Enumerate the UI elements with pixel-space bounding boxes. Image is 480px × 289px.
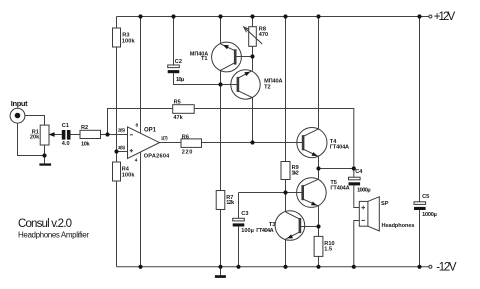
wire C4 to speaker plus	[354, 186, 360, 208]
wire T1 collector to T2 base node	[220, 70, 222, 84]
resistor R2	[80, 130, 101, 138]
resistor R5	[173, 105, 195, 114]
node T5 base	[283, 190, 287, 194]
node noninverting in	[114, 149, 118, 153]
svg-text:OP1: OP1	[144, 127, 157, 133]
wire R8 top	[252, 17, 254, 27]
capacitor C2	[168, 65, 180, 73]
wire R4 bottom to rail	[116, 181, 118, 267]
node bot C5	[417, 265, 421, 269]
svg-text:3(5): 3(5)	[118, 145, 125, 150]
transistor T2	[231, 70, 260, 99]
svg-text:ГТ404А: ГТ404А	[256, 228, 273, 234]
svg-text:OPA2604: OPA2604	[144, 154, 170, 160]
capacitor C3	[233, 218, 245, 226]
ground symbol input	[39, 163, 51, 165]
wire R8 bottom to T2 emitter	[252, 46, 254, 70]
svg-text:-12V: -12V	[436, 261, 457, 273]
wire R9 column from rail	[285, 17, 287, 162]
capacitor C1	[62, 130, 71, 140]
node T5e R10	[316, 224, 320, 228]
node R1 ground	[42, 153, 46, 157]
wire R1 bottom to ground	[44, 145, 46, 163]
svg-text:R6: R6	[182, 135, 189, 141]
svg-text:220: 220	[182, 149, 193, 155]
node output	[250, 140, 254, 144]
op-amp OP1	[128, 127, 160, 158]
wire output node to C4	[319, 168, 354, 170]
wire ground stub below rail	[220, 267, 222, 275]
node inverting in	[105, 132, 109, 136]
svg-text:ГТ404А: ГТ404А	[330, 185, 349, 191]
capacitor C4	[349, 177, 361, 185]
wire T5 base row	[239, 192, 302, 194]
wire T1 emitter to rail	[220, 17, 222, 44]
terminal -12V circle	[429, 265, 432, 268]
svg-text:C1: C1	[62, 123, 69, 129]
wire C3 bottom to rail	[238, 227, 240, 267]
svg-text:1000µ: 1000µ	[422, 212, 437, 218]
wire R5 feedback right run to C4 node	[194, 109, 354, 169]
transistor T5	[297, 178, 327, 208]
node bot R7	[218, 265, 222, 269]
node bot SP	[352, 265, 356, 269]
transistor T3	[275, 211, 305, 241]
svg-text:4.0: 4.0	[62, 141, 70, 147]
resistor R10	[314, 236, 323, 256]
svg-text:2(6): 2(6)	[118, 127, 125, 132]
wire top +12V rail	[117, 16, 430, 18]
wire R9 bottom to T5 base node	[285, 180, 287, 212]
svg-text:470: 470	[259, 32, 268, 38]
wire R10 top	[318, 227, 320, 237]
svg-text:20k: 20k	[30, 135, 40, 141]
resistor R3	[113, 28, 121, 47]
resistor R7	[216, 191, 225, 210]
svg-text:100k: 100k	[122, 172, 136, 178]
resistor R6	[181, 139, 202, 148]
resistor R9	[281, 162, 290, 180]
wire T3 emitter to rail	[285, 239, 287, 267]
transistor T1	[212, 42, 242, 72]
svg-text:1.5: 1.5	[324, 246, 332, 252]
wire R1 wiper link	[54, 134, 62, 136]
svg-text:C2: C2	[175, 59, 182, 65]
node T1 base	[250, 54, 254, 58]
ground symbol bottom	[215, 275, 226, 278]
wire T2 collector down to output node	[252, 98, 254, 143]
node rail R9	[283, 14, 287, 18]
node bot T3e	[283, 265, 287, 269]
resistor R4	[113, 162, 121, 181]
svg-text:10k: 10k	[81, 141, 90, 147]
wire R5 feedback left leg	[108, 109, 173, 135]
svg-text:C3: C3	[241, 211, 248, 217]
wire C1 to R2	[71, 134, 81, 136]
svg-text:100µ: 100µ	[241, 228, 254, 234]
svg-text:T1: T1	[201, 56, 208, 62]
wire op-amp noninverting input	[117, 151, 128, 153]
svg-text:T2: T2	[264, 84, 271, 90]
wire C5 bottom to rail	[419, 210, 421, 267]
wire T3 base lead	[300, 226, 319, 228]
wire C4 node down	[353, 169, 355, 178]
wire jack sleeve to ground	[18, 122, 45, 155]
svg-text:1k2: 1k2	[291, 170, 298, 176]
svg-text:SP: SP	[381, 201, 389, 207]
node bot pin4	[138, 265, 142, 269]
svg-text:Input: Input	[11, 99, 28, 108]
node rail T1e	[218, 14, 222, 18]
node bot C3	[236, 265, 240, 269]
input jack	[10, 108, 25, 123]
svg-text:R2: R2	[81, 125, 88, 131]
resistor R1	[40, 125, 49, 145]
wire C3 top column	[238, 193, 240, 219]
svg-text:10µ: 10µ	[176, 77, 184, 83]
wire op-amp pin4	[140, 152, 142, 267]
wire op-amp output to R6	[160, 142, 182, 144]
wire C2 bottom to T2 base	[174, 73, 238, 84]
wire C2 top column	[173, 17, 175, 66]
svg-text:4: 4	[135, 158, 138, 163]
wire bottom -12V rail	[117, 266, 430, 268]
capacitor C5	[414, 202, 426, 210]
node T2 base	[218, 82, 222, 86]
svg-text:C5: C5	[422, 194, 429, 200]
wire input jack to R1 top	[25, 116, 45, 126]
svg-text:1(7): 1(7)	[161, 135, 168, 140]
svg-text:47k: 47k	[173, 115, 183, 121]
wire R2 to inverting input	[100, 134, 128, 136]
terminal +12V circle	[429, 15, 432, 18]
node rail T4c	[316, 14, 320, 18]
trimmer R8 arrow	[244, 27, 262, 44]
svg-text:+12V: +12V	[434, 11, 456, 23]
wire R6 to T4 base	[201, 142, 303, 144]
wire T2 base node down to R7	[220, 85, 222, 191]
svg-text:ГТ404А: ГТ404А	[330, 145, 349, 151]
node T4e C4	[316, 166, 320, 170]
wire T5 emitter down	[318, 206, 320, 227]
node bot R10	[316, 265, 320, 269]
wire R3 top	[116, 17, 118, 29]
node rail pin8	[138, 14, 142, 18]
wire op-amp pin8	[140, 17, 142, 134]
node rail C5top	[417, 14, 421, 18]
wire R3 bottom to +input node	[116, 47, 118, 162]
svg-text:Headphones Amplifier: Headphones Amplifier	[18, 231, 89, 240]
svg-text:R5: R5	[174, 100, 181, 106]
wire T4 emitter to T5 collector	[318, 157, 320, 180]
node rail R8	[250, 14, 254, 18]
wire T1 base lead	[236, 56, 252, 58]
transistor T4	[297, 128, 327, 158]
svg-text:100k: 100k	[122, 38, 136, 44]
node C4 top	[352, 166, 356, 170]
wire speaker minus to rail	[354, 221, 360, 267]
potentiometer R1 wiper arrow	[49, 132, 55, 137]
svg-text:12k: 12k	[226, 200, 235, 206]
wire R7 bottom to rail	[220, 210, 222, 267]
node rail C2	[171, 14, 175, 18]
svg-text:8: 8	[135, 123, 138, 128]
wire C5 top column	[419, 17, 421, 202]
wire R10 bottom to rail	[318, 256, 320, 266]
svg-text:C4: C4	[355, 169, 363, 175]
speaker SP	[359, 197, 379, 231]
wire T4 collector to rail	[318, 17, 320, 129]
svg-text:Consul v.2.0: Consul v.2.0	[18, 218, 72, 230]
svg-text:1000µ: 1000µ	[357, 187, 371, 193]
resistor R8	[249, 27, 257, 47]
svg-text:Headphones: Headphones	[382, 223, 415, 229]
